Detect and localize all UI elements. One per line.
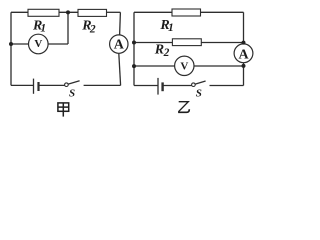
svg-text:V: V — [180, 60, 188, 72]
svg-text:S: S — [196, 88, 202, 100]
svg-text:R: R — [154, 42, 164, 57]
svg-text:S: S — [69, 87, 75, 99]
svg-text:A: A — [114, 38, 125, 53]
svg-text:1: 1 — [40, 22, 46, 34]
svg-text:A: A — [238, 47, 249, 62]
svg-text:2: 2 — [89, 23, 96, 35]
svg-text:V: V — [34, 38, 42, 50]
svg-text:2: 2 — [163, 47, 170, 59]
svg-text:1: 1 — [168, 22, 174, 34]
